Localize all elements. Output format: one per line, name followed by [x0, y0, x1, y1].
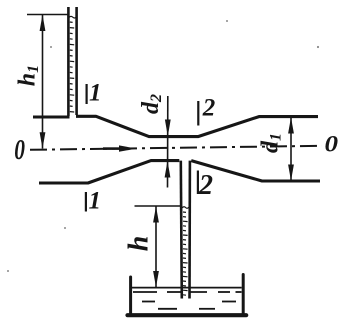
suction tube hatching [183, 212, 188, 295]
suction meniscus [182, 207, 189, 209]
svg-text:2: 2 [202, 95, 216, 122]
suction tube [181, 161, 190, 299]
scan speck [226, 20, 228, 22]
svg-text:1: 1 [89, 80, 102, 107]
dimension h1 [27, 15, 68, 149]
svg-text:0: 0 [325, 132, 339, 157]
svg-text:0: 0 [14, 133, 25, 166]
section mark 2 top [197, 101, 199, 126]
svg-text:2: 2 [198, 170, 213, 201]
dimension h [135, 206, 181, 288]
dimension d2 lower arrow [165, 161, 171, 178]
svg-text:h: h [124, 236, 155, 252]
scan speck [64, 227, 66, 229]
dimension d2 upper arrow [167, 96, 169, 188]
scan speck [50, 46, 52, 48]
piezometer tube [68, 7, 76, 116]
piezometer meniscus [69, 16, 77, 18]
scan speck [7, 270, 9, 272]
pipe bottom wall [39, 161, 320, 183]
dimension d1 [290, 117, 292, 181]
section mark 1 top [85, 84, 87, 104]
water surface [132, 287, 242, 289]
reservoir tank [128, 275, 247, 316]
svg-text:1: 1 [89, 188, 102, 215]
piezometer liquid hatching [70, 22, 74, 112]
section mark 2 bottom [197, 171, 199, 195]
section mark 1 bottom [85, 192, 87, 212]
h1 arrowheads [40, 15, 46, 149]
scan speck [317, 46, 319, 48]
water dashes [133, 292, 242, 309]
pipe top wall [33, 116, 318, 136]
flow arrow [103, 145, 137, 151]
centerline 0-0 [30, 146, 322, 150]
